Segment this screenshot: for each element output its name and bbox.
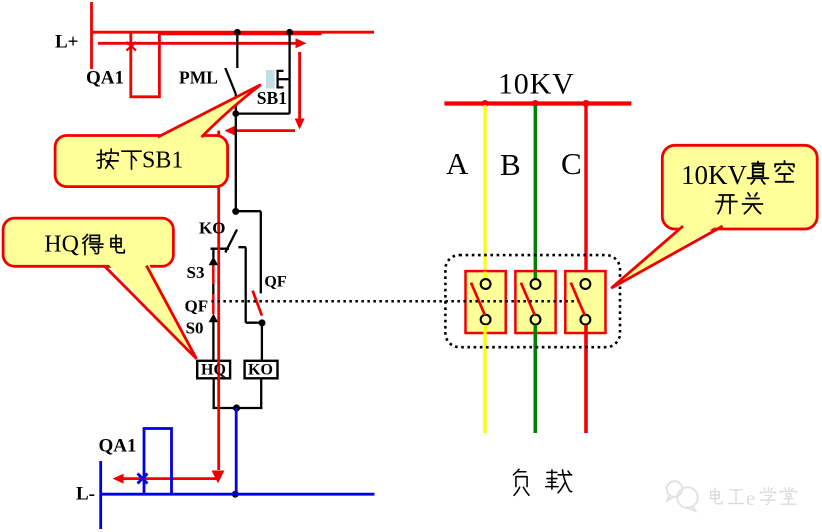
svg-text:PML: PML [179,68,218,88]
svg-text:HQ: HQ [201,361,226,378]
svg-text:S3: S3 [187,263,205,282]
svg-text:A: A [446,146,469,181]
svg-text:KO: KO [199,219,225,238]
svg-text:L+: L+ [55,32,79,53]
svg-text:QA1: QA1 [99,436,137,457]
svg-text:10KV: 10KV [498,68,575,101]
svg-text:C: C [561,146,582,181]
svg-text:e: e [746,486,755,510]
svg-text:HQ: HQ [44,232,79,258]
svg-text:QF: QF [264,274,286,291]
svg-text:QF: QF [185,297,209,316]
svg-text:KO: KO [248,361,273,378]
svg-text:QA1: QA1 [86,68,124,89]
svg-text:SB1: SB1 [257,88,287,108]
svg-text:S0: S0 [186,319,204,338]
svg-text:B: B [500,147,521,182]
svg-text:SB1: SB1 [142,148,183,174]
svg-text:L-: L- [76,484,95,505]
svg-text:10KV: 10KV [681,160,747,190]
